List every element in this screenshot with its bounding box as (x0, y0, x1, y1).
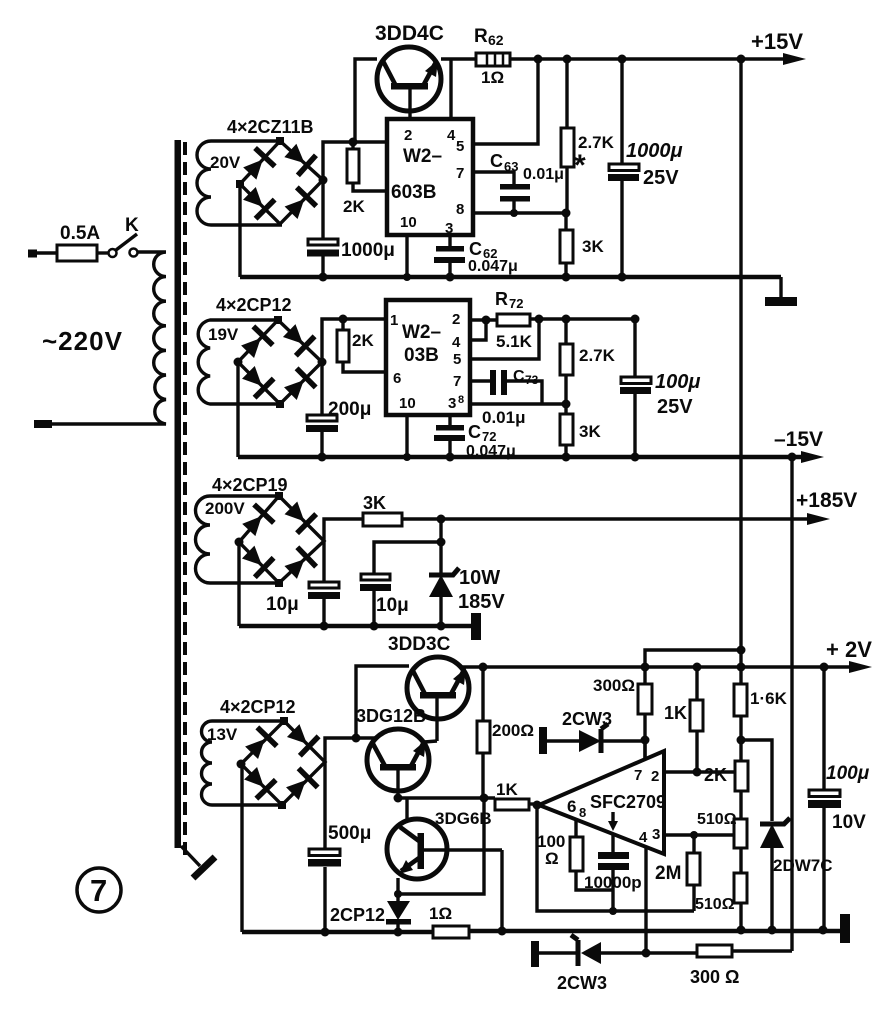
resistor 200ohm (477, 667, 490, 798)
svg-text:6: 6 (567, 797, 576, 816)
svg-text:1Ω: 1Ω (481, 68, 504, 87)
diode 2CP12 (386, 894, 411, 932)
svg-text:1: 1 (390, 312, 398, 329)
wire pin4 drop (449, 59, 452, 119)
resistor 2K (347, 138, 387, 192)
winding 200V (196, 496, 280, 583)
switch K (109, 234, 138, 257)
svg-text:2.7K: 2.7K (579, 346, 616, 365)
svg-text:0.5A: 0.5A (60, 223, 100, 244)
svg-text:10000p: 10000p (584, 873, 642, 892)
capacitor 10u (first) (308, 541, 340, 631)
core end arrow stroke (181, 846, 200, 866)
svg-text:3DG12B: 3DG12B (356, 706, 426, 726)
resistor 3K (section2) (560, 404, 573, 457)
svg-text:2: 2 (452, 311, 460, 328)
svg-text:63: 63 (504, 159, 518, 174)
diode 2CW3 (lower) (531, 935, 697, 967)
svg-text:3K: 3K (579, 422, 601, 441)
svg-text:62: 62 (488, 32, 504, 48)
IC W2-603B (lower) (386, 300, 470, 415)
wire left node drop (237, 542, 240, 626)
svg-text:10V: 10V (832, 812, 866, 833)
svg-text:1000μ: 1000μ (341, 240, 395, 261)
svg-text:3: 3 (448, 395, 456, 412)
feedback wire from output (537, 805, 694, 915)
svg-text:5: 5 (453, 351, 461, 368)
capacitor 200u (306, 362, 338, 462)
svg-text:510Ω: 510Ω (695, 896, 735, 913)
svg-text:200μ: 200μ (328, 399, 371, 420)
svg-text:100μ: 100μ (826, 763, 870, 784)
svg-text:4×2CZ11B: 4×2CZ11B (227, 117, 314, 137)
svg-text:*: * (574, 149, 586, 182)
svg-text:510Ω: 510Ω (697, 811, 737, 828)
transistor 3DG6B (387, 798, 502, 894)
svg-text:2CP12: 2CP12 (330, 905, 385, 925)
wire transistor collector to rail (355, 59, 377, 142)
svg-text:500μ: 500μ (328, 823, 371, 844)
svg-text:2K: 2K (343, 197, 365, 216)
resistor 510ohm (lower) (734, 873, 747, 930)
bridge rectifier 4x2CP12 (bottom) (237, 717, 326, 809)
wire bridge right node riser to rail (323, 142, 387, 180)
svg-text:2M: 2M (655, 863, 681, 884)
svg-text:3DD3C: 3DD3C (388, 634, 451, 655)
wire pin4 drop (642, 848, 651, 958)
wire pin3/8 (470, 402, 566, 405)
wire left node drop to bottom rail (240, 764, 243, 932)
bridge rectifier 4x2CP12 (234, 316, 327, 408)
svg-text:10: 10 (400, 214, 417, 231)
svg-text:1·6K: 1·6K (750, 689, 788, 708)
resistor 300ohm (lower) (697, 945, 792, 957)
svg-text:R: R (495, 289, 508, 309)
svg-text:2CW3: 2CW3 (562, 709, 612, 729)
svg-text:25V: 25V (657, 396, 693, 418)
wire right node riser to 3K (324, 519, 363, 541)
ground symbol (765, 277, 797, 306)
resistor 3K (560, 213, 573, 277)
capacitor 500u (308, 762, 341, 937)
bridge rectifier 4x2CP19 (235, 492, 325, 587)
svg-text:4×2CP12: 4×2CP12 (220, 697, 296, 717)
svg-text:–15V: –15V (774, 428, 823, 451)
svg-text:0.01μ: 0.01μ (523, 166, 564, 183)
resistor 3K (section3) (363, 513, 402, 526)
-15V rail (238, 451, 824, 463)
capacitor 10u (second) (360, 574, 391, 631)
wire to 10u2 and zener (374, 519, 446, 574)
svg-text:25V: 25V (643, 167, 679, 189)
svg-text:+ 2V: + 2V (826, 637, 872, 662)
svg-text:~220V: ~220V (42, 326, 123, 356)
svg-text:C: C (513, 368, 525, 385)
capacitor 1000u (bridge filter) (307, 180, 339, 282)
output rail of R72 (530, 315, 640, 324)
svg-text:SFC2709: SFC2709 (590, 792, 666, 812)
capacitor 10000p (598, 835, 629, 911)
svg-text:200V: 200V (205, 499, 245, 518)
wire base drop (500, 850, 503, 931)
transformer core (175, 140, 182, 848)
resistor R72 5.1K (497, 314, 530, 326)
svg-text:0.01μ: 0.01μ (482, 408, 526, 427)
svg-text:19V: 19V (208, 325, 239, 344)
svg-text:5.1K: 5.1K (496, 332, 533, 351)
svg-text:2K: 2K (704, 765, 727, 785)
svg-text:K: K (125, 215, 139, 236)
svg-text:Ω: Ω (545, 849, 559, 868)
wire 3DD3C collector drop (356, 666, 409, 738)
svg-text:3K: 3K (363, 493, 386, 513)
wire emitter loop (394, 798, 484, 898)
wire pin10 drop (405, 235, 408, 277)
svg-text:100μ: 100μ (655, 371, 700, 393)
svg-text:7: 7 (90, 873, 107, 908)
primary lead terminal blob (34, 420, 52, 428)
svg-text:8: 8 (579, 805, 586, 820)
wire right node riser to rail (322, 319, 386, 362)
wire pin2 to R72 (470, 318, 497, 321)
capacitor C72 0.047u (434, 415, 465, 457)
svg-text:+185V: +185V (796, 489, 857, 512)
svg-text:2CW3: 2CW3 (557, 973, 607, 993)
wire pin8 (473, 211, 566, 214)
winding 13V (202, 721, 284, 805)
svg-text:72: 72 (482, 429, 496, 444)
op-amp SFC2709 (539, 751, 666, 854)
svg-text:300Ω: 300Ω (593, 676, 635, 695)
capacitor 100u 25V (620, 319, 651, 457)
capacitor C62 0.047u (434, 235, 465, 277)
wire right node riser and dc bus (325, 738, 377, 762)
+2V rail (461, 661, 872, 673)
svg-text:03B: 03B (404, 345, 439, 366)
svg-text:C: C (468, 422, 481, 442)
svg-text:10: 10 (399, 395, 416, 412)
svg-text:3: 3 (652, 826, 660, 843)
resistor 2K (section2) (337, 315, 386, 373)
base bus wire (394, 794, 496, 803)
ground rail section1 (240, 273, 781, 282)
negative feed down to bottom section (790, 457, 793, 951)
fuse 0.5A (28, 245, 108, 261)
svg-text:1K: 1K (664, 703, 687, 723)
svg-text:5: 5 (456, 138, 464, 155)
winding 19V (198, 320, 280, 404)
svg-text:W2–: W2– (403, 146, 442, 167)
figure number 7 (77, 868, 121, 912)
stub from +15V feed to 300ohm (645, 646, 746, 685)
zener 2DW7C (760, 818, 790, 930)
svg-text:C: C (469, 239, 482, 259)
resistor 2.7K (561, 59, 574, 213)
svg-text:20V: 20V (210, 153, 241, 172)
svg-text:1000μ: 1000μ (626, 140, 683, 162)
svg-text:6: 6 (393, 370, 401, 387)
wire pin5 riser (470, 319, 539, 359)
bridge rectifier 4x2CZ11B (236, 137, 328, 224)
diode 2CW3 (upper) (539, 724, 645, 754)
wire pin7 entry (643, 740, 646, 759)
long vertical +15V feed down (739, 59, 742, 684)
core shield dashed line (183, 142, 187, 862)
svg-text:2: 2 (404, 127, 412, 144)
capacitor C63 0.01u (500, 184, 530, 213)
wire transistor emitter to R62 (441, 57, 476, 60)
svg-text:4×2CP12: 4×2CP12 (216, 295, 292, 315)
svg-text:4: 4 (639, 829, 648, 846)
svg-text:7: 7 (456, 165, 464, 182)
bottom rail with 1ohm (242, 926, 841, 939)
capacitor 1000u 25V (608, 59, 639, 277)
resistor R62 1ohm (476, 53, 510, 66)
svg-text:W2–: W2– (402, 322, 441, 343)
capacitor C73 0.01u (series) (470, 370, 542, 404)
+185V rail (402, 513, 830, 525)
svg-text:73: 73 (525, 373, 539, 387)
zener 10W 185V (429, 542, 459, 631)
svg-text:13V: 13V (207, 725, 238, 744)
svg-text:300 Ω: 300 Ω (690, 967, 739, 987)
svg-text:R: R (474, 26, 488, 47)
svg-text:8: 8 (458, 394, 464, 406)
svg-text:10μ: 10μ (266, 594, 299, 615)
wire pin7 to C63 (473, 172, 514, 184)
resistor 510ohm (upper) (734, 819, 747, 873)
resistor 2K (bottom) (735, 761, 748, 819)
resistor 2M (687, 831, 700, 911)
resistor 300ohm (upper) (638, 684, 652, 759)
svg-text:10μ: 10μ (376, 595, 409, 616)
resistor 1.6K (734, 684, 747, 761)
transistor 3DD3C (407, 657, 469, 741)
wire pin5 to +15V rail (473, 59, 538, 144)
ground bar section3 (471, 613, 481, 640)
wire pin10 drop (405, 415, 408, 457)
wire pin3 (663, 833, 734, 836)
IC W2-603B (upper) (387, 119, 473, 237)
svg-text:200Ω: 200Ω (492, 721, 534, 740)
winding 20V (197, 141, 282, 225)
svg-text:1K: 1K (496, 780, 518, 799)
capacitor 100u 10V (808, 667, 841, 930)
svg-text:3: 3 (445, 220, 453, 237)
svg-text:603B: 603B (391, 182, 436, 203)
svg-text:0.047μ: 0.047μ (468, 258, 518, 275)
svg-text:8: 8 (456, 201, 464, 218)
wire to zener 2DW7C (741, 740, 772, 821)
resistor 2.7K (section2) (560, 319, 573, 404)
transformer primary winding (40, 252, 166, 424)
resistor 1K (vertical) (690, 667, 703, 777)
resistor 1K (horizontal) (495, 799, 542, 810)
svg-text:4: 4 (447, 127, 456, 144)
svg-text:7: 7 (453, 373, 461, 390)
svg-text:10W: 10W (459, 567, 500, 589)
svg-text:C: C (490, 151, 503, 171)
resistor 100ohm (570, 820, 613, 890)
wire left node to -15V rail (236, 362, 239, 457)
ground bar bottom (840, 914, 850, 943)
wire pin2 (665, 770, 736, 773)
svg-text:4: 4 (452, 334, 461, 351)
svg-text:2K: 2K (352, 331, 374, 350)
+15V rail (510, 53, 806, 65)
transistor 3DG12B (367, 729, 437, 798)
ground rail section3 (239, 624, 472, 629)
svg-text:72: 72 (509, 296, 523, 311)
svg-text:1Ω: 1Ω (429, 904, 452, 923)
wire pin4 riser (470, 320, 486, 340)
svg-text:2: 2 (651, 768, 659, 785)
wire bridge left node to ground rail (238, 184, 241, 277)
svg-text:185V: 185V (458, 591, 505, 613)
svg-text:+15V: +15V (751, 29, 803, 54)
svg-text:7: 7 (634, 767, 642, 784)
svg-text:3K: 3K (582, 237, 604, 256)
transistor 3DD4C (377, 47, 441, 119)
svg-text:3DD4C: 3DD4C (375, 22, 444, 45)
